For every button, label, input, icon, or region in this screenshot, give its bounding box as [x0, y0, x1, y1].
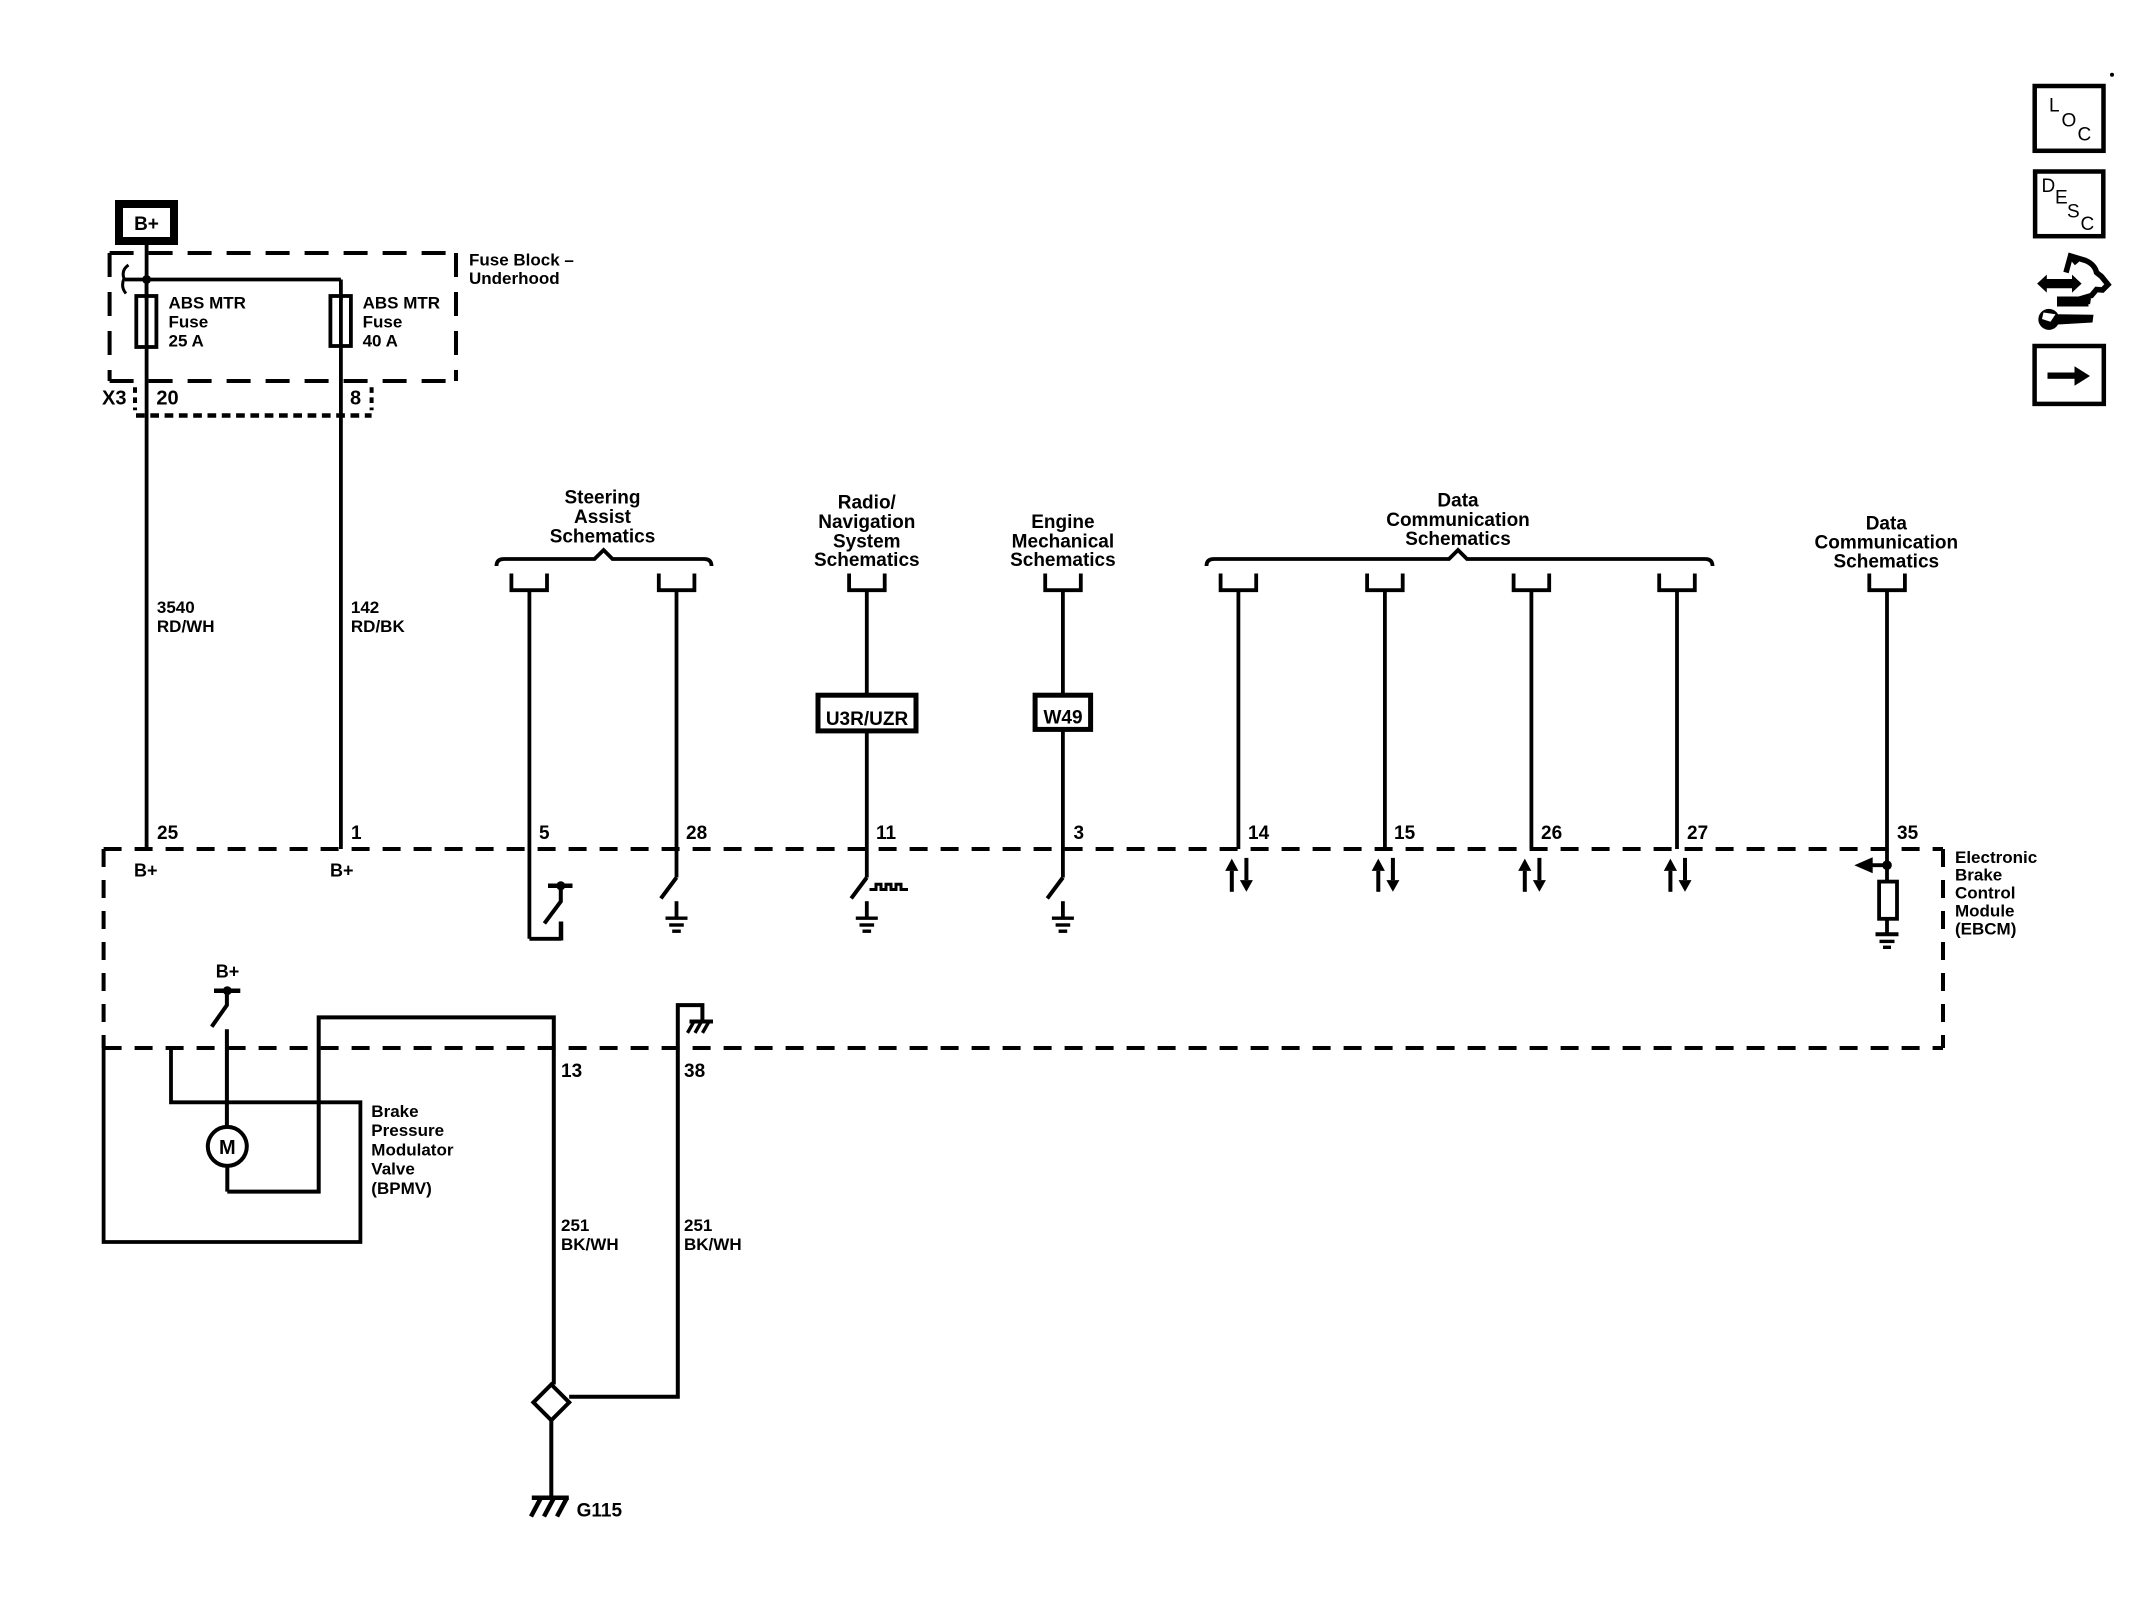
brace for steering assist [497, 550, 712, 566]
svg-text:1: 1 [351, 823, 362, 844]
ground at pin 35 [1876, 932, 1899, 936]
bidirectional data arrows at pin 26 [1518, 858, 1546, 892]
svg-text:Modulator: Modulator [371, 1140, 454, 1159]
svg-text:Brake: Brake [1955, 866, 2002, 885]
wire to W49 option box [1061, 590, 1065, 695]
ground G115 [531, 1498, 622, 1522]
svg-text:Fuse: Fuse [169, 313, 209, 332]
svg-text:Schematics: Schematics [550, 527, 656, 548]
svg-text:Communication: Communication [1815, 533, 1959, 554]
resistor at pin 35 [1879, 882, 1897, 919]
svg-text:142: 142 [351, 598, 379, 617]
internal ground hook at pin 38 [678, 1005, 713, 1048]
title Data Communication Schematics (right) [1815, 513, 1959, 572]
svg-text:20: 20 [156, 388, 178, 410]
fuse F1 ABS MTR 25A [136, 296, 156, 347]
svg-text:Fuse Block –: Fuse Block – [469, 251, 574, 270]
terminal at pin 26 wire [1514, 574, 1550, 591]
title Steering Assist Schematics [550, 488, 656, 548]
BPMV box outline [104, 1048, 361, 1242]
svg-text:ABS MTR: ABS MTR [363, 294, 440, 313]
svg-text:Fuse: Fuse [363, 313, 403, 332]
wire junction to fuse1 [145, 280, 149, 301]
title Data Communication Schematics (left) [1386, 491, 1530, 551]
wire to pin 27 [1675, 590, 1679, 849]
svg-text:28: 28 [686, 823, 707, 844]
internal switch at pin 5 [529, 849, 572, 941]
icon LOC button [2035, 86, 2104, 151]
svg-text:(EBCM): (EBCM) [1955, 919, 2016, 938]
wire from splice to G115 [549, 1420, 553, 1497]
svg-text:11: 11 [876, 823, 897, 844]
wire from W49 to pin 3 [1061, 729, 1065, 849]
EBCM module dashed box [104, 849, 1943, 1048]
svg-text:Underhood: Underhood [469, 269, 560, 288]
wire 251 BK/WH from pin 38 [569, 1048, 678, 1397]
svg-text:B+: B+ [330, 861, 354, 881]
svg-text:Control: Control [1955, 884, 2015, 903]
svg-text:38: 38 [684, 1061, 705, 1082]
svg-text:Schematics: Schematics [1010, 550, 1116, 571]
label Electronic Brake Control Module (EBCM) [1955, 848, 2037, 939]
svg-text:Radio/: Radio/ [838, 493, 897, 514]
terminal at pin 11 wire [849, 574, 885, 591]
internal switch with PWM to ground at pin 11 [851, 849, 908, 931]
svg-text:27: 27 [1687, 823, 1708, 844]
svg-text:8: 8 [350, 388, 361, 410]
svg-text:L: L [2049, 96, 2060, 117]
option box U3R/UZR [818, 695, 916, 731]
connector X3 dotted box [135, 387, 372, 415]
svg-text:E: E [2055, 187, 2068, 208]
wire to pin 15 [1383, 590, 1387, 849]
svg-text:B+: B+ [216, 962, 240, 982]
wire to U3R/UZR option box [865, 590, 869, 695]
title Radio/Navigation System Schematics [814, 493, 920, 571]
svg-text:X3: X3 [102, 388, 126, 410]
wire down to fuse2 [339, 280, 343, 301]
internal switch to ground at pin 28 [661, 849, 688, 931]
svg-text:(BPMV): (BPMV) [371, 1179, 431, 1198]
terminal at pin 3 wire [1045, 574, 1081, 591]
svg-text:G115: G115 [577, 1501, 623, 1522]
svg-text:Electronic: Electronic [1955, 848, 2037, 867]
svg-text:RD/BK: RD/BK [351, 617, 406, 636]
wire to pin 35 [1885, 590, 1889, 849]
internal switch to ground at pin 3 [1047, 849, 1074, 931]
terminal at pin 35 wire [1869, 574, 1905, 591]
wire 142 RD/BK [339, 346, 343, 849]
svg-text:BK/WH: BK/WH [561, 1235, 619, 1254]
svg-text:Schematics: Schematics [814, 550, 920, 571]
svg-text:35: 35 [1897, 823, 1919, 844]
svg-text:S: S [2067, 202, 2080, 223]
svg-text:3540: 3540 [157, 598, 195, 617]
svg-text:25 A: 25 A [169, 332, 204, 351]
bidirectional data arrows at pin 27 [1664, 858, 1692, 892]
label Brake Pressure Modulator Valve (BPMV) [371, 1102, 454, 1198]
terminal at pin 15 wire [1367, 574, 1403, 591]
wire from U3R/UZR to pin 11 [865, 731, 869, 849]
svg-text:B+: B+ [134, 861, 158, 881]
terminal at pin 28 wire [659, 574, 695, 591]
svg-text:RD/WH: RD/WH [157, 617, 215, 636]
wire from B+ box down into fuse block [145, 245, 149, 296]
internal termination at pin 35 [1854, 849, 1898, 947]
svg-text:ABS MTR: ABS MTR [169, 294, 246, 313]
wire 3540 RD/WH [145, 347, 149, 849]
svg-text:Brake: Brake [371, 1102, 418, 1121]
wire to pin 14 [1237, 590, 1241, 849]
svg-text:BK/WH: BK/WH [684, 1235, 742, 1254]
svg-text:C: C [2081, 214, 2095, 235]
splice diamond S [533, 1385, 569, 1421]
svg-text:14: 14 [1248, 823, 1270, 844]
svg-text:25: 25 [157, 823, 179, 844]
wire 251 BK/WH from pin 13 [552, 1048, 556, 1385]
terminal at pin 5 wire [511, 574, 547, 591]
bidirectional data arrows at pin 15 [1372, 858, 1400, 892]
svg-text:5: 5 [539, 823, 550, 844]
icon next arrow button [2035, 346, 2104, 404]
svg-text:251: 251 [561, 1216, 589, 1235]
icon schematic navigation (arrows and wrench) [2037, 256, 2108, 330]
wire from pin 13 to motor [227, 1017, 554, 1191]
svg-text:Engine: Engine [1031, 512, 1094, 533]
svg-text:251: 251 [684, 1216, 712, 1235]
svg-text:Pressure: Pressure [371, 1121, 444, 1140]
battery feed B+ box [119, 204, 174, 241]
terminal at pin 27 wire [1659, 574, 1695, 591]
brace for data communication [1207, 550, 1713, 566]
svg-text:M: M [219, 1137, 236, 1159]
icon DESC button [2035, 172, 2103, 237]
fuse block underhood dashed box [110, 253, 456, 381]
svg-text:Steering: Steering [564, 488, 640, 509]
internal motor switch from B+ [212, 986, 241, 1127]
registration dot [2110, 73, 2114, 77]
svg-text:O: O [2062, 110, 2077, 131]
svg-text:W49: W49 [1043, 708, 1082, 729]
svg-text:15: 15 [1394, 823, 1416, 844]
wire to pin 28 [675, 590, 679, 849]
junction dot at fuse 1 feed [142, 275, 151, 284]
svg-text:C: C [2078, 125, 2092, 146]
wire to pin 5 [528, 590, 532, 849]
svg-text:Module: Module [1955, 902, 2015, 921]
fuse F2 ABS MTR 40A [330, 296, 351, 346]
svg-text:Data: Data [1437, 491, 1479, 512]
svg-text:Valve: Valve [371, 1160, 415, 1179]
terminal at pin 14 wire [1221, 574, 1257, 591]
bus wire from splice to fuse 2 [125, 278, 341, 282]
pump motor M [208, 1127, 247, 1192]
bidirectional data arrows at pin 14 [1225, 858, 1253, 892]
svg-text:D: D [2042, 176, 2056, 197]
svg-text:Communication: Communication [1386, 510, 1530, 531]
svg-text:Data: Data [1866, 513, 1908, 534]
svg-text:Schematics: Schematics [1833, 552, 1939, 573]
svg-text:26: 26 [1541, 823, 1562, 844]
splice hook symbol inside fuse block [123, 265, 129, 294]
svg-text:3: 3 [1074, 823, 1085, 844]
svg-text:Navigation: Navigation [818, 512, 915, 533]
option box W49 [1035, 695, 1091, 729]
svg-text:13: 13 [561, 1061, 582, 1082]
svg-text:Schematics: Schematics [1405, 529, 1511, 550]
svg-text:U3R/UZR: U3R/UZR [826, 709, 909, 730]
svg-text:Assist: Assist [574, 507, 632, 528]
wire to pin 26 [1530, 590, 1534, 849]
svg-text:40 A: 40 A [363, 332, 398, 351]
svg-text:B+: B+ [134, 214, 159, 235]
title Engine Mechanical Schematics [1010, 512, 1116, 571]
